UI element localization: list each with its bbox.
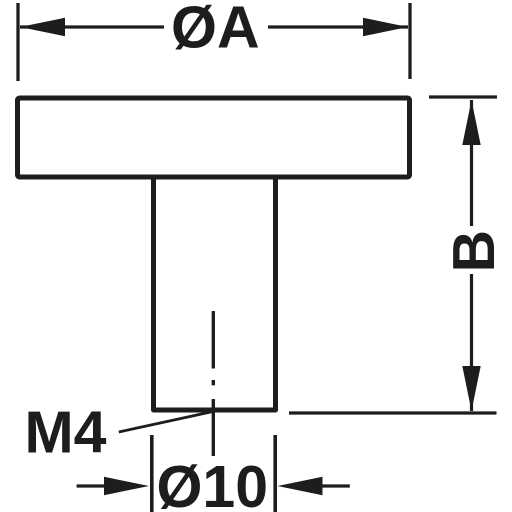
arrowhead A left — [20, 18, 65, 36]
arrowhead B down — [462, 366, 480, 411]
svg-text:Ø10: Ø10 — [157, 454, 269, 512]
arrowhead A right — [363, 18, 408, 36]
arrowhead Ø10 right — [278, 477, 323, 495]
extension line bottom (height B) — [289, 411, 497, 414]
extension line left (diameter A) — [16, 3, 19, 81]
extension line bottom-left (Ø10) — [150, 435, 154, 512]
centerline dot — [212, 380, 215, 385]
arrowhead Ø10 left — [104, 477, 149, 495]
leader line M4 — [119, 412, 213, 433]
extension line right (diameter A) — [408, 3, 411, 79]
svg-text:M4: M4 — [25, 400, 107, 466]
arrowhead B up — [462, 100, 480, 145]
extension line top (height B) — [429, 95, 497, 98]
svg-text:ØA: ØA — [171, 0, 260, 60]
dimension line B lower segment — [470, 274, 473, 411]
svg-text:B: B — [441, 230, 507, 273]
knob head outline — [18, 98, 410, 177]
knob stem outline — [154, 178, 276, 411]
dimension arrow Ø10 right — [318, 484, 350, 487]
dimension line A right segment — [268, 25, 408, 28]
dimension arrow Ø10 left — [77, 484, 110, 487]
dimension line A left segment — [20, 25, 164, 28]
centerline dash upper — [212, 311, 215, 369]
dimension line B upper segment — [470, 100, 473, 226]
extension line bottom-right (Ø10) — [273, 435, 277, 512]
centerline dash lower — [212, 399, 215, 456]
